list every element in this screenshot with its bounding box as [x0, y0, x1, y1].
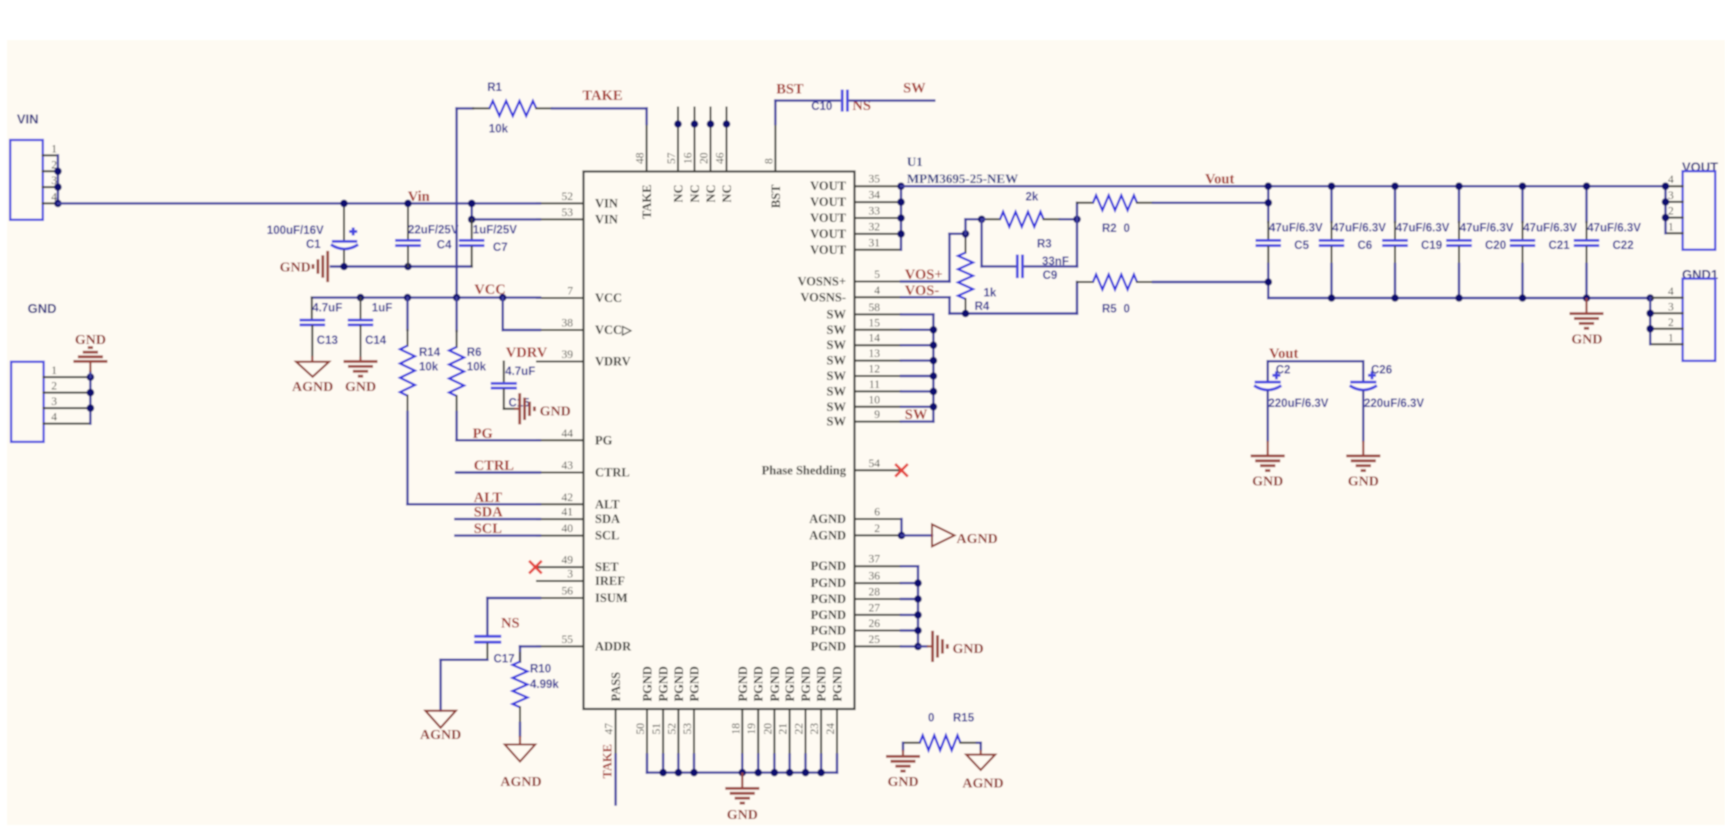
svg-text:SW: SW	[903, 81, 926, 97]
connector GND1 pin 4	[1650, 297, 1682, 299]
net label CTRL	[456, 471, 540, 473]
svg-text:U1: U1	[907, 154, 923, 169]
svg-text:2: 2	[1668, 206, 1674, 218]
svg-text:1: 1	[1668, 332, 1674, 344]
connector GND1 pin 2	[1650, 328, 1682, 330]
svg-text:49: 49	[562, 555, 574, 567]
svg-text:R1: R1	[487, 82, 502, 94]
svg-text:AGND: AGND	[809, 528, 846, 542]
svg-text:SW: SW	[905, 407, 928, 423]
U1 pin 44 PG (left)	[537, 439, 584, 441]
svg-text:42: 42	[562, 492, 574, 504]
capacitor C26 220uF/6.3V (polarized)	[1362, 361, 1364, 381]
svg-text:0: 0	[1124, 223, 1130, 235]
U1 pin 52 PGND (bottom)	[677, 709, 679, 755]
U1 pin 5 VOSNS+ (right)	[855, 281, 902, 283]
capacitor C19 47uF/6.3V	[1394, 186, 1396, 222]
wire VOS+	[901, 280, 950, 282]
U1 pin 50 PGND (bottom)	[646, 709, 648, 755]
svg-text:ADDR: ADDR	[595, 639, 632, 653]
svg-text:GND: GND	[280, 261, 311, 276]
U1 pin 2 AGND (right)	[855, 534, 902, 536]
svg-text:48: 48	[635, 152, 647, 164]
capacitor C1 100uF/16V (polarized)	[343, 203, 345, 240]
svg-text:PGND: PGND	[799, 666, 813, 701]
svg-text:10k: 10k	[489, 124, 509, 136]
wire PGND pin drop	[741, 755, 743, 773]
svg-text:PASS: PASS	[609, 672, 623, 702]
U1 pin 47 PASS (bottom)	[615, 709, 617, 755]
U1 pin 40 SCL (left)	[537, 535, 584, 537]
svg-text:SW: SW	[827, 415, 847, 429]
svg-text:3: 3	[51, 396, 57, 408]
U1 pin 41 SDA (left)	[537, 518, 584, 520]
wire R5 to output gnd rail	[1153, 281, 1268, 283]
wire PGND right bus	[901, 565, 918, 567]
svg-text:PGND: PGND	[783, 666, 797, 701]
wire pin53 stub	[472, 218, 540, 220]
svg-text:ALT: ALT	[474, 490, 503, 506]
svg-text:NC: NC	[672, 185, 686, 203]
U1 pin 32 VOUT (right)	[855, 233, 902, 235]
net label SDA	[455, 518, 540, 520]
svg-text:GND: GND	[953, 642, 984, 657]
wire VOS-	[901, 296, 950, 298]
wire PGND pin drop	[804, 755, 806, 773]
ground symbol GND at C26	[1346, 454, 1380, 457]
capacitor C9 33nF	[980, 219, 982, 266]
ground symbol GND at C2	[1251, 454, 1285, 457]
svg-text:8: 8	[763, 158, 775, 164]
svg-text:AGND: AGND	[809, 512, 846, 526]
svg-text:Vout: Vout	[1205, 172, 1234, 188]
svg-text:12: 12	[869, 364, 881, 376]
resistor R1 10k	[457, 107, 473, 109]
connector GND1 pin 1	[1650, 343, 1682, 345]
resistor R14 10k	[406, 298, 408, 330]
svg-text:1k: 1k	[984, 287, 997, 299]
connector VOUT pin 4	[1666, 185, 1683, 187]
U1 pin 20 PGND (bottom)	[773, 709, 775, 755]
svg-text:R4: R4	[975, 301, 990, 313]
U1 pin 57 NC (top)	[677, 108, 679, 172]
svg-text:VIN: VIN	[595, 196, 618, 210]
wire VCC rail	[312, 296, 540, 298]
svg-text:47uF/6.3V: 47uF/6.3V	[1332, 223, 1386, 235]
U1 pin 24 PGND (bottom)	[836, 709, 838, 755]
svg-text:7: 7	[567, 286, 573, 298]
svg-text:C14: C14	[365, 335, 387, 347]
wire VOUT bus	[900, 186, 902, 250]
U1 pin 12 SW (right)	[855, 375, 902, 377]
U1 pin 52 VIN (left)	[537, 202, 584, 204]
svg-text:PGND: PGND	[657, 666, 671, 701]
connector GND body	[11, 362, 44, 442]
wire Vin rail	[58, 202, 540, 204]
U1 pin 6 AGND (right)	[855, 518, 902, 520]
svg-text:33: 33	[869, 206, 881, 218]
svg-text:CTRL: CTRL	[474, 458, 515, 474]
svg-text:28: 28	[869, 587, 881, 599]
svg-text:10k: 10k	[419, 362, 439, 374]
svg-text:19: 19	[746, 723, 758, 735]
svg-text:38: 38	[562, 318, 574, 330]
connector VIN pin 2	[43, 170, 58, 172]
svg-text:R6: R6	[467, 347, 482, 359]
U1 pin 56 ISUM (left)	[537, 597, 584, 599]
svg-text:C4: C4	[437, 239, 452, 251]
wire PGND pin drop	[677, 755, 679, 773]
capacitor C4 22uF/25V	[407, 203, 409, 239]
U1 pin 11 SW (right)	[855, 390, 902, 392]
svg-text:10: 10	[869, 394, 881, 406]
wire PGND pin drop	[773, 755, 775, 773]
svg-text:3: 3	[1668, 301, 1674, 313]
resistor R5 0	[1077, 281, 1093, 283]
ground symbol GND at PGND pins	[931, 631, 934, 662]
wire BST	[774, 101, 776, 124]
svg-text:C10: C10	[811, 101, 832, 113]
svg-text:PGND: PGND	[831, 666, 845, 701]
svg-text:4.7uF: 4.7uF	[505, 366, 535, 378]
U1 pin 51 PGND (bottom)	[662, 709, 664, 755]
svg-text:5: 5	[874, 269, 880, 281]
U1 pin 34 VOUT (right)	[855, 201, 902, 203]
svg-text:1uF: 1uF	[372, 302, 392, 314]
resistor R15 0	[903, 742, 920, 744]
svg-text:4: 4	[1668, 174, 1674, 186]
svg-text:C20: C20	[1485, 240, 1506, 252]
svg-text:0: 0	[1124, 303, 1130, 315]
svg-text:SW: SW	[827, 354, 847, 368]
U1 pin 8 BST (top)	[774, 124, 776, 172]
U1 pin 31 VOUT (right)	[855, 249, 902, 251]
wire PGND pin drop	[788, 755, 790, 773]
connector VIN pin 3	[43, 186, 58, 188]
svg-text:SW: SW	[827, 400, 847, 414]
capacitor C10 NS	[841, 90, 844, 112]
U1 pin 48 TAKE (top)	[646, 124, 648, 172]
svg-text:220uF/6.3V: 220uF/6.3V	[1364, 398, 1424, 410]
svg-text:C22: C22	[1613, 240, 1634, 252]
ground symbol AGND at R15	[980, 743, 982, 750]
svg-text:ALT: ALT	[595, 497, 620, 511]
svg-text:VCC: VCC	[595, 291, 622, 305]
svg-text:4: 4	[1668, 286, 1674, 298]
wire PGND pin drop	[693, 755, 695, 773]
svg-text:VOUT: VOUT	[810, 243, 847, 257]
resistor R3 2k	[984, 218, 1000, 220]
U1 pin 33 VOUT (right)	[855, 217, 902, 219]
U1 pin 38 VCC> (left)	[537, 329, 584, 331]
svg-text:VOUT: VOUT	[810, 195, 847, 209]
U1 pin 4 VOSNS- (right)	[855, 296, 902, 298]
svg-text:GND: GND	[75, 333, 106, 348]
svg-text:SDA: SDA	[595, 512, 620, 526]
svg-text:1: 1	[51, 365, 57, 377]
ground symbol GND at C14	[344, 360, 378, 363]
wire PGND pin drop	[662, 755, 664, 773]
svg-text:SCL: SCL	[595, 529, 619, 543]
connector GND pin 4	[44, 423, 91, 425]
U1 pin 20 NC (top)	[710, 108, 712, 172]
svg-text:TAKE: TAKE	[601, 744, 615, 779]
wire PGND pin drop	[757, 755, 759, 773]
svg-text:GND: GND	[887, 775, 918, 790]
U1 pin 53 PGND (bottom)	[693, 709, 695, 755]
svg-text:PGND: PGND	[672, 666, 686, 701]
svg-text:AGND: AGND	[500, 775, 541, 790]
svg-text:21: 21	[778, 723, 790, 735]
resistor R2 0	[1076, 203, 1078, 220]
svg-text:CTRL: CTRL	[595, 466, 630, 480]
svg-text:R5: R5	[1102, 303, 1117, 315]
resistor R10 4.99k	[519, 653, 521, 662]
svg-text:2: 2	[51, 381, 57, 393]
svg-text:SCL: SCL	[474, 521, 503, 537]
U1 pin 49 SET (left)	[537, 566, 584, 568]
svg-text:41: 41	[562, 507, 574, 519]
wire input ground rail	[331, 265, 472, 267]
svg-text:16: 16	[683, 152, 695, 164]
wire AGND pins join	[900, 519, 902, 535]
svg-text:SET: SET	[595, 560, 619, 574]
U1 pin 3 IREF (left)	[537, 580, 584, 582]
wire PGND pin drop	[820, 755, 822, 773]
svg-text:SW: SW	[827, 307, 847, 321]
svg-text:PGND: PGND	[688, 666, 702, 701]
svg-text:NS: NS	[501, 616, 520, 632]
svg-text:VOSNS-: VOSNS-	[800, 290, 846, 304]
capacitor C15 4.7uF	[503, 362, 505, 383]
capacitor C2 220uF/6.3V (polarized)	[1266, 361, 1268, 381]
U1 pin 22 PGND (bottom)	[805, 709, 807, 755]
wire C10 to SW	[850, 99, 934, 101]
svg-text:C13: C13	[317, 335, 338, 347]
svg-text:9: 9	[874, 409, 880, 421]
connector GND pin 1	[44, 376, 91, 378]
wire C17 to AGND	[441, 659, 488, 661]
svg-text:47uF/6.3V: 47uF/6.3V	[1587, 223, 1641, 235]
svg-text:SDA: SDA	[474, 505, 504, 521]
svg-text:3: 3	[567, 569, 573, 581]
svg-text:43: 43	[562, 460, 574, 472]
wire to GND symbol	[918, 645, 927, 647]
svg-text:52: 52	[666, 723, 678, 735]
svg-text:PGND: PGND	[768, 666, 782, 701]
svg-text:56: 56	[562, 586, 574, 598]
U1 pin 19 PGND (bottom)	[757, 709, 759, 755]
U1 pin 7 VCC (left)	[537, 297, 584, 299]
wire TAKE to pin 48	[552, 107, 647, 109]
svg-text:TAKE: TAKE	[640, 185, 654, 220]
ground symbol GND at C15	[518, 393, 521, 424]
capacitor C20 47uF/6.3V	[1458, 186, 1460, 222]
U1 pin 10 SW (right)	[855, 406, 902, 408]
op-amp U1 MPM3695-25-NEW IC body	[584, 172, 855, 710]
svg-text:AGND: AGND	[292, 380, 333, 395]
ground symbol above GND connector	[89, 372, 91, 377]
U1 pin 46 NC (top)	[726, 108, 728, 172]
capacitor C7 1uF/25V	[471, 219, 473, 239]
U1 pin 36 PGND (right)	[855, 582, 902, 584]
svg-text:NC: NC	[720, 185, 734, 203]
svg-text:22: 22	[794, 723, 806, 735]
svg-text:25: 25	[869, 634, 881, 646]
svg-text:34: 34	[869, 190, 881, 202]
svg-text:27: 27	[869, 602, 881, 614]
svg-text:51: 51	[651, 723, 663, 735]
wire ADDR to R10	[520, 645, 540, 647]
U1 pin 23 PGND (bottom)	[820, 709, 822, 755]
svg-text:BST: BST	[776, 82, 804, 98]
svg-text:4: 4	[874, 285, 880, 297]
svg-text:VOUT: VOUT	[810, 179, 847, 193]
wire R2 to Vout	[1153, 202, 1268, 204]
svg-text:58: 58	[869, 302, 881, 314]
capacitor C14 1uF	[360, 298, 362, 319]
U1 pin 58 SW (right)	[855, 313, 902, 315]
svg-text:Vout: Vout	[1269, 346, 1298, 362]
svg-text:SW: SW	[827, 323, 847, 337]
svg-text:AGND: AGND	[957, 532, 998, 547]
svg-text:GND: GND	[28, 301, 57, 316]
U1 pin 28 PGND (right)	[855, 598, 902, 600]
svg-text:C5: C5	[1294, 240, 1309, 252]
U1 pin 14 SW (right)	[855, 344, 902, 346]
wire SW bus	[901, 313, 933, 315]
capacitor C13 4.7uF	[311, 298, 313, 319]
wire GND1 pin bus	[1649, 298, 1651, 345]
svg-text:PGND: PGND	[736, 666, 750, 701]
svg-text:C21: C21	[1549, 240, 1571, 252]
svg-text:PGND: PGND	[811, 576, 846, 590]
capacitor C22 47uF/6.3V	[1585, 186, 1587, 222]
svg-text:SW: SW	[827, 384, 847, 398]
svg-text:C19: C19	[1421, 240, 1442, 252]
svg-text:55: 55	[562, 634, 574, 646]
connector VOUT pin 1	[1666, 232, 1683, 234]
wire VCC to pin 38	[502, 298, 504, 330]
wire Vout rail	[901, 185, 1666, 187]
ground symbol GND at bottom bus	[741, 773, 743, 789]
U1 pin 25 PGND (right)	[855, 645, 902, 647]
svg-text:C7: C7	[493, 242, 508, 254]
U1 pin 35 VOUT (right)	[855, 185, 902, 187]
capacitor C17 NS	[474, 635, 501, 638]
U1 pin 42 ALT (left)	[537, 503, 584, 505]
U1 pin 54 Phase Shedding (right)	[855, 469, 902, 471]
svg-text:4: 4	[51, 412, 57, 424]
svg-text:24: 24	[825, 723, 837, 735]
svg-text:GND: GND	[727, 808, 758, 823]
svg-text:R2: R2	[1102, 223, 1117, 235]
svg-text:47uF/6.3V: 47uF/6.3V	[1269, 223, 1323, 235]
ground symbol AGND at C17	[425, 711, 456, 728]
svg-text:PGND: PGND	[811, 639, 846, 653]
ground symbol AGND at R10	[519, 736, 521, 745]
svg-text:IREF: IREF	[595, 574, 625, 588]
svg-text:50: 50	[635, 723, 647, 735]
svg-text:26: 26	[869, 618, 881, 630]
svg-text:PGND: PGND	[815, 666, 829, 701]
ground symbol GND at C1	[326, 251, 329, 282]
svg-text:2: 2	[874, 523, 880, 535]
svg-text:2: 2	[1668, 317, 1674, 329]
capacitor C6 47uF/6.3V	[1330, 186, 1332, 222]
svg-text:GND: GND	[1571, 332, 1602, 347]
svg-text:1: 1	[51, 143, 57, 155]
svg-text:0: 0	[928, 713, 934, 725]
svg-text:37: 37	[869, 554, 881, 566]
svg-text:GND: GND	[1252, 474, 1283, 489]
ground symbol GND at R15	[902, 743, 904, 750]
svg-text:PGND: PGND	[752, 666, 766, 701]
wire VOUT pin bus	[1664, 186, 1666, 233]
resistor R6 10k	[455, 298, 457, 331]
svg-text:44: 44	[562, 428, 574, 440]
connector GND pin 3	[44, 407, 91, 409]
svg-text:46: 46	[715, 152, 727, 164]
U1 pin 13 SW (right)	[855, 360, 902, 362]
no-ERC marker at SET pin 49	[529, 561, 542, 574]
svg-text:PGND: PGND	[811, 559, 846, 573]
wire R4 top to R3	[964, 219, 966, 234]
svg-text:R14: R14	[419, 347, 441, 359]
capacitor C5 47uF/6.3V	[1267, 186, 1269, 222]
svg-text:11: 11	[869, 379, 880, 391]
U1 pin 15 SW (right)	[855, 329, 902, 331]
wire bottom PGND bus	[646, 755, 648, 773]
svg-text:VDRV: VDRV	[595, 355, 631, 369]
svg-text:VCC▷: VCC▷	[595, 323, 633, 337]
wire ISUM to C17	[487, 597, 540, 599]
svg-text:13: 13	[869, 348, 881, 360]
svg-text:VOUT: VOUT	[810, 227, 847, 241]
svg-text:R10: R10	[530, 664, 551, 676]
connector VOUT pin 2	[1666, 217, 1683, 219]
svg-text:ISUM: ISUM	[595, 591, 628, 605]
svg-text:3: 3	[1668, 190, 1674, 202]
svg-text:52: 52	[562, 191, 574, 203]
svg-text:PGND: PGND	[811, 608, 846, 622]
svg-text:47: 47	[604, 723, 616, 735]
svg-text:32: 32	[869, 221, 881, 233]
svg-text:SW: SW	[827, 338, 847, 352]
svg-text:C6: C6	[1358, 240, 1373, 252]
svg-text:54: 54	[869, 458, 881, 470]
svg-text:PG: PG	[595, 433, 613, 447]
U1 pin 39 VDRV (left)	[537, 361, 584, 363]
capacitor C21 47uF/6.3V	[1521, 186, 1523, 222]
wire R1 to VCC rail	[455, 108, 457, 297]
connector VIN pin 4	[43, 202, 58, 204]
U1 pin 18 PGND (bottom)	[741, 709, 743, 755]
resistor R4 1k	[965, 236, 967, 253]
svg-text:2k: 2k	[1026, 192, 1039, 204]
svg-text:VIN: VIN	[595, 212, 618, 226]
svg-text:23: 23	[809, 723, 821, 735]
svg-text:36: 36	[869, 571, 881, 583]
U1 pin 27 PGND (right)	[855, 614, 902, 616]
svg-text:47uF/6.3V: 47uF/6.3V	[1396, 223, 1450, 235]
svg-text:35: 35	[869, 174, 881, 186]
svg-text:VOS+: VOS+	[905, 267, 943, 283]
svg-text:20: 20	[699, 152, 711, 164]
svg-text:PGND: PGND	[811, 592, 846, 606]
svg-text:NC: NC	[704, 185, 718, 203]
ground symbol AGND at pins 6/2	[932, 524, 955, 546]
